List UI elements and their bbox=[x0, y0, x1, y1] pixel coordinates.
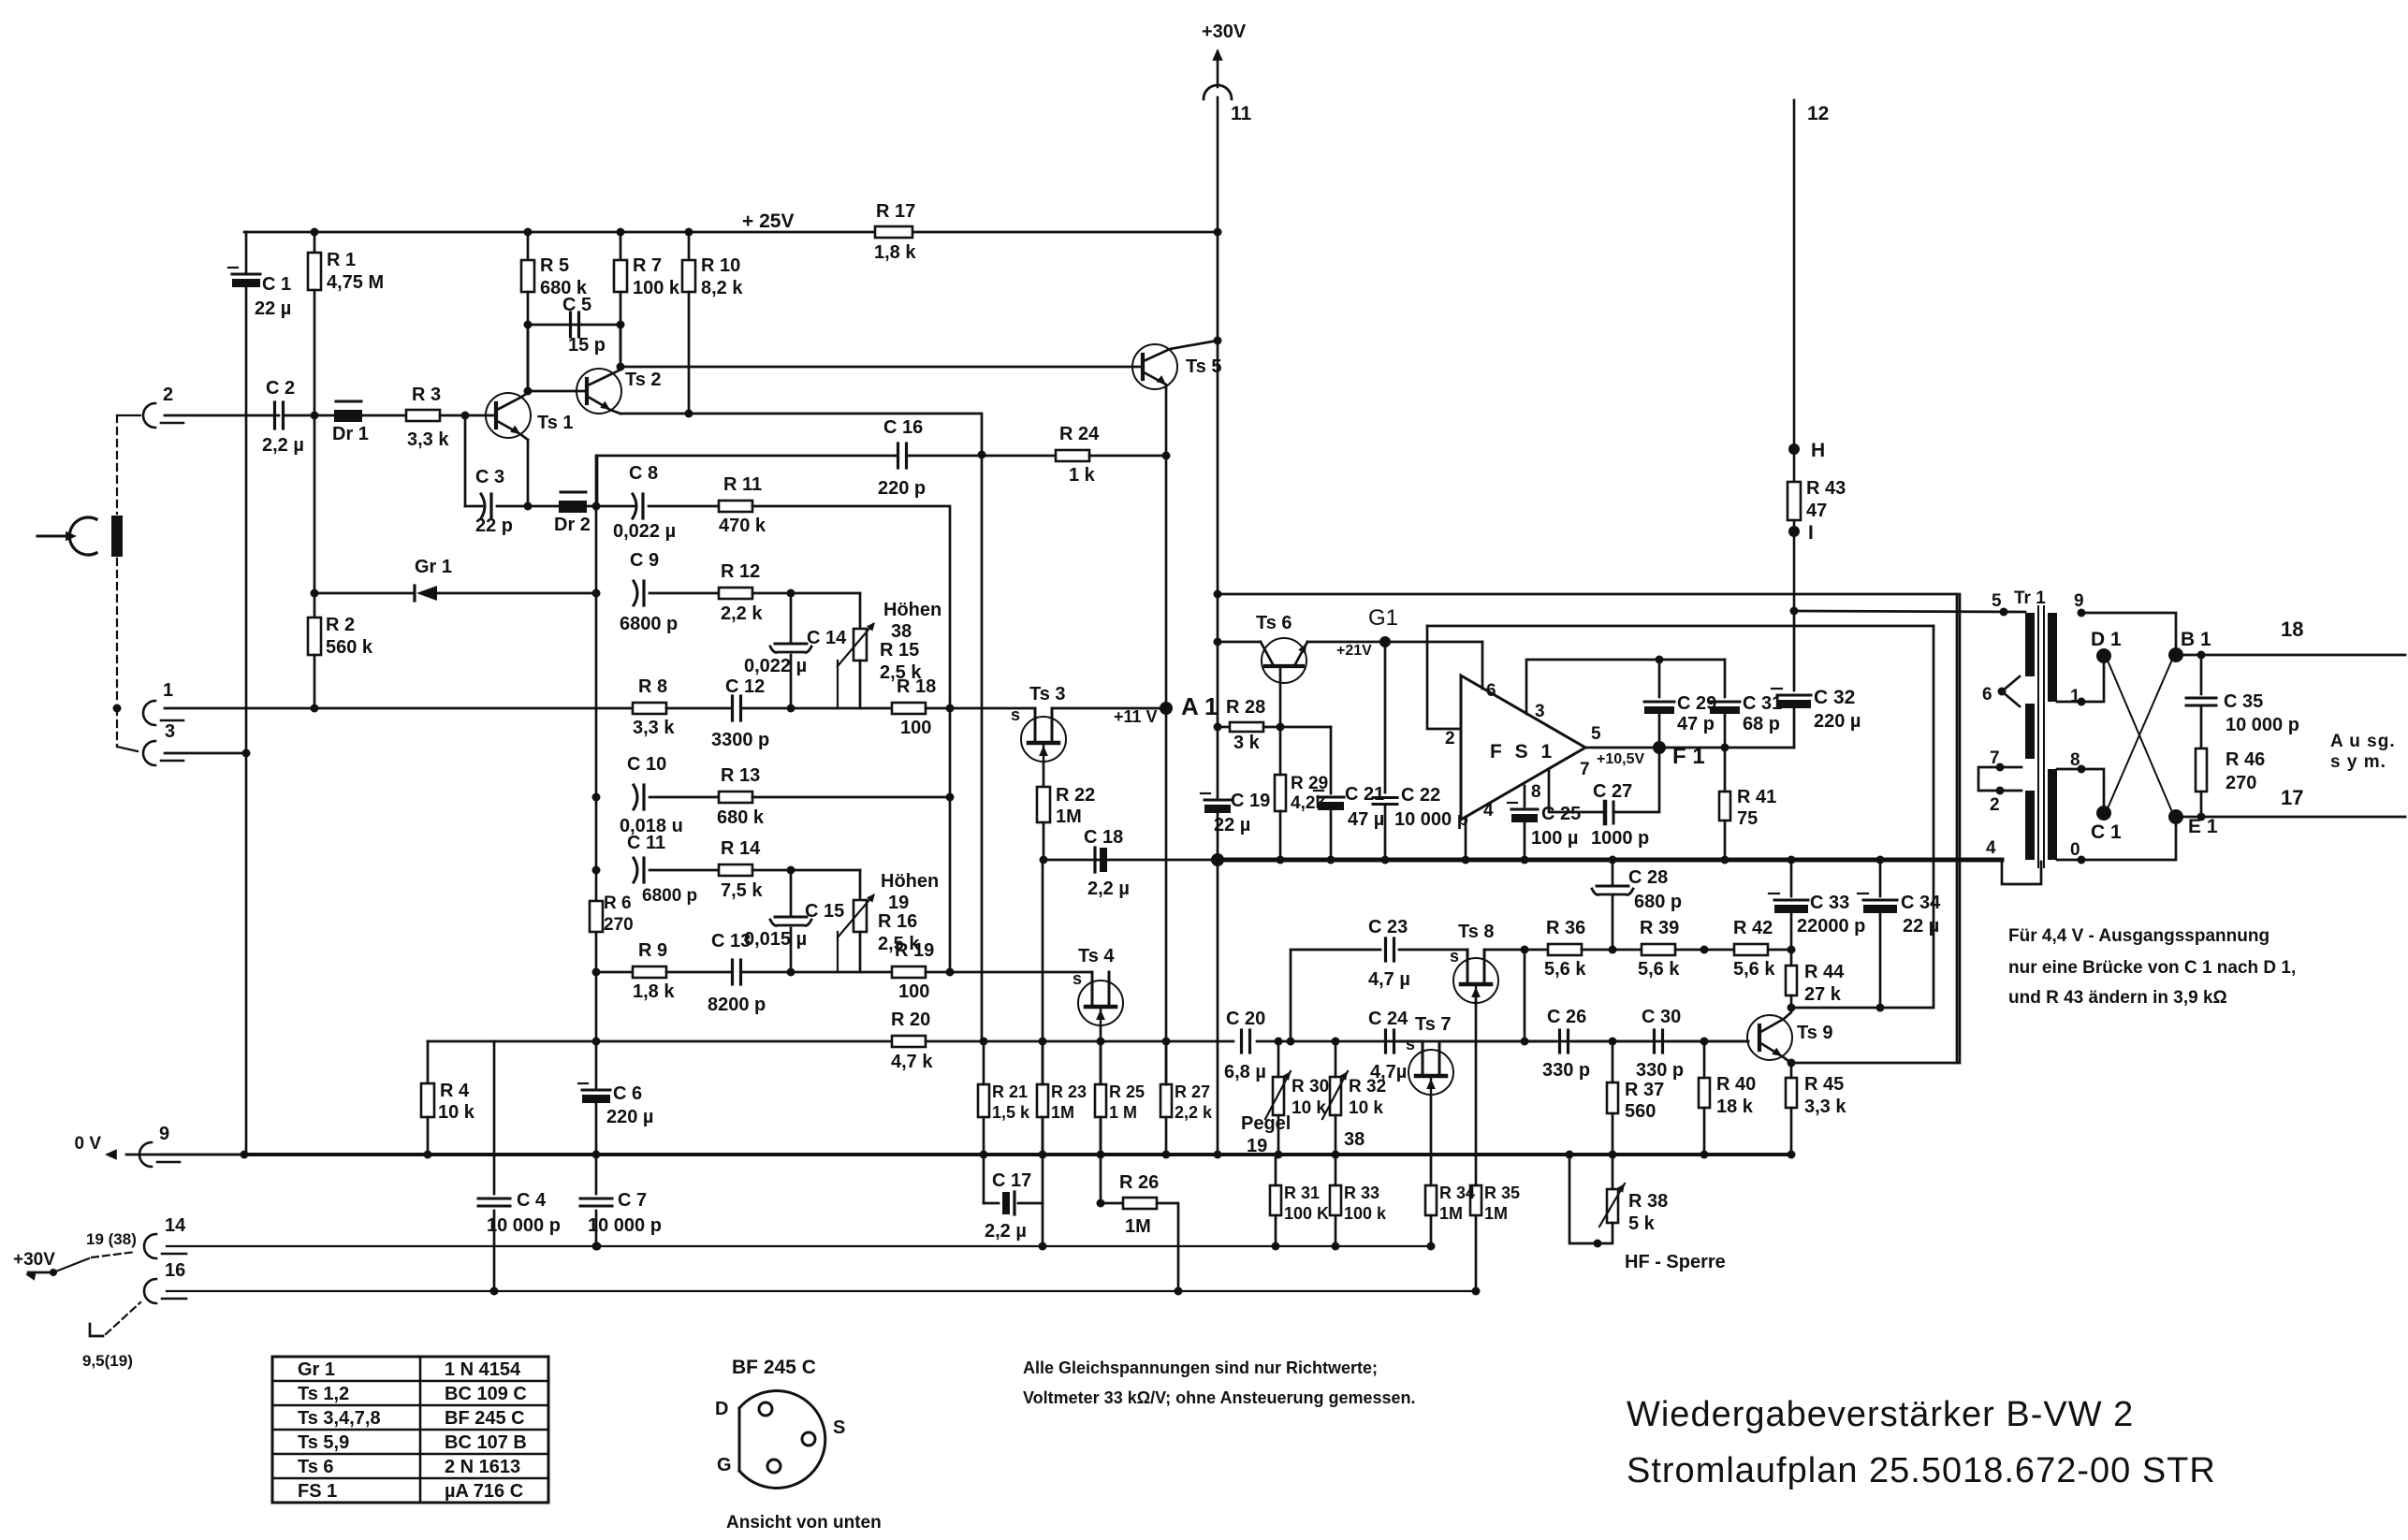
svg-text:Höhen: Höhen bbox=[881, 871, 939, 892]
svg-text:S: S bbox=[833, 1417, 845, 1438]
svg-text:C 5: C 5 bbox=[562, 295, 591, 315]
svg-text:R 20: R 20 bbox=[891, 1010, 930, 1030]
svg-text:Ts 1: Ts 1 bbox=[537, 413, 574, 433]
svg-text:R 16: R 16 bbox=[878, 911, 917, 932]
svg-text:6,8 µ: 6,8 µ bbox=[1224, 1062, 1266, 1082]
svg-text:C 25: C 25 bbox=[1541, 804, 1581, 824]
svg-text:C 22: C 22 bbox=[1401, 785, 1440, 806]
svg-text:µA 716 C: µA 716 C bbox=[445, 1481, 523, 1502]
svg-text:18 k: 18 k bbox=[1716, 1097, 1754, 1117]
svg-text:1M: 1M bbox=[1125, 1216, 1151, 1237]
svg-text:27 k: 27 k bbox=[1804, 984, 1842, 1005]
svg-text:Wiedergabeverstärker B-VW 2: Wiedergabeverstärker B-VW 2 bbox=[1627, 1395, 2134, 1434]
svg-text:R 2: R 2 bbox=[326, 615, 355, 635]
svg-text:47 µ: 47 µ bbox=[1348, 809, 1384, 830]
svg-text:8200 p: 8200 p bbox=[708, 995, 766, 1015]
svg-text:Ts 9: Ts 9 bbox=[1797, 1023, 1833, 1043]
svg-text:0,022 µ: 0,022 µ bbox=[613, 521, 676, 542]
svg-text:3: 3 bbox=[165, 721, 175, 742]
svg-text:22 µ: 22 µ bbox=[1903, 916, 1939, 937]
svg-text:+30V: +30V bbox=[1202, 22, 1247, 42]
svg-text:R 1: R 1 bbox=[327, 250, 356, 270]
svg-text:1000 p: 1000 p bbox=[1591, 828, 1649, 849]
svg-text:75: 75 bbox=[1737, 808, 1758, 829]
svg-text:100 k: 100 k bbox=[633, 278, 680, 298]
svg-text:C 13: C 13 bbox=[711, 931, 751, 952]
svg-text:R 41: R 41 bbox=[1737, 787, 1776, 807]
svg-text:A 1: A 1 bbox=[1181, 692, 1219, 720]
svg-text:330 p: 330 p bbox=[1542, 1060, 1590, 1081]
svg-text:R 13: R 13 bbox=[721, 765, 760, 786]
svg-text:100 µ: 100 µ bbox=[1531, 828, 1578, 849]
svg-text:470 k: 470 k bbox=[719, 516, 766, 536]
svg-text:C 20: C 20 bbox=[1226, 1009, 1265, 1029]
svg-text:2: 2 bbox=[1445, 729, 1455, 748]
svg-text:5 k: 5 k bbox=[1628, 1213, 1656, 1234]
svg-text:R 39: R 39 bbox=[1640, 918, 1679, 938]
svg-text:C 18: C 18 bbox=[1084, 827, 1123, 848]
svg-text:R 19: R 19 bbox=[895, 940, 934, 961]
svg-text:C 11: C 11 bbox=[627, 833, 665, 853]
svg-text:3 k: 3 k bbox=[1233, 733, 1261, 753]
svg-text:Pegel: Pegel bbox=[1241, 1113, 1291, 1134]
svg-text:10 k: 10 k bbox=[438, 1102, 475, 1123]
svg-text:5: 5 bbox=[1992, 591, 2002, 611]
svg-text:38: 38 bbox=[891, 621, 912, 642]
svg-text:2,2 µ: 2,2 µ bbox=[262, 435, 304, 456]
svg-text:4: 4 bbox=[1483, 801, 1494, 821]
svg-text:C 14: C 14 bbox=[807, 628, 847, 648]
svg-text:Gr 1: Gr 1 bbox=[298, 1359, 335, 1380]
svg-text:2,2 k: 2,2 k bbox=[1175, 1103, 1213, 1122]
svg-text:s: s bbox=[1450, 947, 1459, 966]
svg-text:R 36: R 36 bbox=[1546, 918, 1585, 938]
svg-text:18: 18 bbox=[2281, 617, 2303, 641]
svg-text:I: I bbox=[1808, 522, 1814, 544]
svg-text:und R 43 ändern in 3,9 kΩ: und R 43 ändern in 3,9 kΩ bbox=[2008, 988, 2227, 1008]
svg-text:R 43: R 43 bbox=[1806, 478, 1846, 499]
svg-text:C 32: C 32 bbox=[1814, 687, 1855, 708]
svg-text:R 25: R 25 bbox=[1109, 1082, 1145, 1101]
svg-text:1M: 1M bbox=[1439, 1204, 1463, 1223]
svg-text:R 24: R 24 bbox=[1059, 424, 1100, 444]
svg-text:1 k: 1 k bbox=[1069, 465, 1096, 486]
svg-text:R 31: R 31 bbox=[1284, 1184, 1320, 1202]
svg-text:Für 4,4 V - Ausgangsspannung: Für 4,4 V - Ausgangsspannung bbox=[2008, 926, 2269, 946]
svg-text:1,5 k: 1,5 k bbox=[992, 1103, 1030, 1122]
svg-text:22 µ: 22 µ bbox=[1214, 815, 1250, 835]
svg-text:C 7: C 7 bbox=[618, 1190, 647, 1211]
svg-text:R 23: R 23 bbox=[1051, 1082, 1087, 1101]
svg-text:4,75 M: 4,75 M bbox=[327, 272, 384, 293]
svg-text:R 22: R 22 bbox=[1056, 785, 1095, 806]
svg-text:R 27: R 27 bbox=[1175, 1082, 1210, 1101]
svg-text:Ts 5,9: Ts 5,9 bbox=[298, 1432, 349, 1453]
svg-text:+11 V: +11 V bbox=[1114, 707, 1158, 726]
svg-text:F S 1: F S 1 bbox=[1490, 741, 1555, 763]
svg-text:8,2 k: 8,2 k bbox=[701, 278, 743, 298]
svg-text:8: 8 bbox=[1531, 782, 1541, 802]
svg-text:R 44: R 44 bbox=[1804, 962, 1845, 982]
svg-text:Gr 1: Gr 1 bbox=[415, 557, 452, 577]
svg-text:R 28: R 28 bbox=[1226, 697, 1265, 718]
svg-text:C 3: C 3 bbox=[475, 467, 504, 487]
svg-text:s y m.: s y m. bbox=[2330, 752, 2386, 772]
svg-text:C 23: C 23 bbox=[1368, 917, 1408, 937]
svg-text:47 p: 47 p bbox=[1677, 714, 1715, 734]
svg-text:R 10: R 10 bbox=[701, 255, 740, 276]
svg-text:680 k: 680 k bbox=[717, 807, 765, 828]
svg-text:Tr 1: Tr 1 bbox=[2014, 588, 2046, 608]
svg-text:+ 25V: + 25V bbox=[742, 211, 794, 232]
svg-text:560: 560 bbox=[1625, 1101, 1656, 1122]
svg-text:Ts 3,4,7,8: Ts 3,4,7,8 bbox=[298, 1408, 381, 1429]
svg-text:19: 19 bbox=[1247, 1136, 1267, 1156]
svg-text:5: 5 bbox=[1591, 724, 1601, 744]
svg-text:Stromlaufplan 25.5018.672-00 S: Stromlaufplan 25.5018.672-00 STR bbox=[1627, 1451, 2216, 1490]
svg-text:4,7 k: 4,7 k bbox=[891, 1052, 933, 1072]
svg-text:Dr 1: Dr 1 bbox=[332, 424, 369, 444]
svg-text:R 26: R 26 bbox=[1119, 1172, 1159, 1193]
svg-text:R 17: R 17 bbox=[876, 201, 915, 222]
svg-text:Alle Gleichspannungen sind nur: Alle Gleichspannungen sind nur Richtwert… bbox=[1023, 1358, 1378, 1377]
svg-text:1 N 4154: 1 N 4154 bbox=[445, 1359, 521, 1380]
svg-text:R 34: R 34 bbox=[1439, 1184, 1475, 1202]
svg-text:C 10: C 10 bbox=[627, 754, 666, 775]
svg-text:C 27: C 27 bbox=[1593, 781, 1632, 802]
svg-text:+30V: +30V bbox=[13, 1250, 55, 1270]
svg-text:HF - Sperre: HF - Sperre bbox=[1625, 1252, 1726, 1272]
svg-text:1M: 1M bbox=[1051, 1103, 1074, 1122]
svg-text:22 µ: 22 µ bbox=[255, 298, 291, 319]
svg-text:3: 3 bbox=[1535, 702, 1545, 721]
svg-text:Ts 8: Ts 8 bbox=[1458, 922, 1495, 942]
svg-text:R 45: R 45 bbox=[1804, 1074, 1844, 1095]
svg-text:100 k: 100 k bbox=[1344, 1204, 1387, 1223]
svg-text:R 46: R 46 bbox=[2226, 749, 2265, 770]
svg-text:3,3 k: 3,3 k bbox=[1804, 1097, 1846, 1117]
svg-text:R 40: R 40 bbox=[1716, 1074, 1756, 1095]
svg-text:R 33: R 33 bbox=[1344, 1184, 1379, 1202]
svg-text:+21V: +21V bbox=[1336, 643, 1372, 659]
svg-text:R 5: R 5 bbox=[540, 255, 569, 276]
svg-text:14: 14 bbox=[165, 1215, 186, 1236]
svg-text:C 30: C 30 bbox=[1642, 1007, 1681, 1027]
svg-text:Höhen: Höhen bbox=[883, 600, 941, 620]
svg-text:nur eine Brücke von C 1 nach D: nur eine Brücke von C 1 nach D 1, bbox=[2008, 958, 2296, 978]
svg-text:3,3 k: 3,3 k bbox=[407, 429, 449, 450]
svg-text:R 3: R 3 bbox=[412, 385, 441, 405]
svg-text:Ansicht von unten: Ansicht von unten bbox=[726, 1513, 882, 1533]
svg-text:F 1: F 1 bbox=[1672, 744, 1705, 769]
svg-text:C 34: C 34 bbox=[1901, 893, 1941, 913]
svg-text:R 12: R 12 bbox=[721, 561, 760, 582]
svg-text:16: 16 bbox=[165, 1260, 185, 1281]
svg-text:C 9: C 9 bbox=[630, 550, 659, 571]
svg-text:7,5 k: 7,5 k bbox=[721, 880, 763, 901]
svg-text:C 6: C 6 bbox=[613, 1083, 642, 1104]
svg-text:1,8 k: 1,8 k bbox=[633, 981, 675, 1002]
svg-text:2,2 µ: 2,2 µ bbox=[1087, 879, 1130, 899]
svg-text:0 V: 0 V bbox=[74, 1134, 101, 1154]
svg-text:680 p: 680 p bbox=[1634, 892, 1682, 912]
svg-text:s: s bbox=[1073, 969, 1082, 988]
svg-text:R 9: R 9 bbox=[638, 940, 667, 961]
svg-text:C 1: C 1 bbox=[262, 274, 291, 295]
svg-text:C 19: C 19 bbox=[1231, 791, 1270, 811]
svg-text:C 8: C 8 bbox=[629, 463, 658, 484]
svg-text:R 35: R 35 bbox=[1484, 1184, 1520, 1202]
svg-text:1M: 1M bbox=[1484, 1204, 1508, 1223]
svg-text:1: 1 bbox=[163, 680, 173, 701]
svg-text:R 32: R 32 bbox=[1349, 1077, 1386, 1097]
svg-text:10 k: 10 k bbox=[1349, 1098, 1383, 1118]
svg-text:10 000 p: 10 000 p bbox=[2226, 715, 2299, 735]
svg-text:BF 245 C: BF 245 C bbox=[732, 1357, 816, 1378]
svg-text:22 p: 22 p bbox=[475, 516, 513, 536]
svg-text:D 1: D 1 bbox=[2091, 629, 2122, 650]
svg-text:R 21: R 21 bbox=[992, 1082, 1028, 1101]
svg-text:R 6: R 6 bbox=[604, 893, 632, 913]
svg-text:Ts 2: Ts 2 bbox=[625, 370, 662, 390]
svg-text:4,7 µ: 4,7 µ bbox=[1368, 969, 1410, 990]
svg-text:1 M: 1 M bbox=[1109, 1103, 1137, 1122]
svg-text:R 37: R 37 bbox=[1625, 1080, 1664, 1100]
svg-text:9: 9 bbox=[2074, 591, 2084, 611]
svg-text:Ts 6: Ts 6 bbox=[298, 1457, 334, 1477]
svg-text:12: 12 bbox=[1807, 103, 1829, 124]
svg-text:Ts 7: Ts 7 bbox=[1415, 1014, 1452, 1035]
svg-text:19: 19 bbox=[888, 893, 909, 913]
svg-text:Ts 6: Ts 6 bbox=[1256, 613, 1292, 633]
svg-text:2,2 k: 2,2 k bbox=[721, 603, 763, 624]
svg-text:R 15: R 15 bbox=[880, 640, 919, 661]
svg-text:2: 2 bbox=[1990, 795, 2000, 815]
svg-text:s: s bbox=[1406, 1035, 1415, 1053]
svg-text:19 (38): 19 (38) bbox=[86, 1230, 137, 1248]
svg-text:270: 270 bbox=[2226, 773, 2256, 793]
svg-text:6: 6 bbox=[1982, 685, 1992, 705]
svg-text:9,5(19): 9,5(19) bbox=[82, 1352, 133, 1370]
svg-text:220 µ: 220 µ bbox=[606, 1107, 653, 1127]
svg-text:G: G bbox=[717, 1455, 732, 1475]
svg-text:1,8 k: 1,8 k bbox=[874, 242, 916, 263]
svg-text:R 42: R 42 bbox=[1733, 918, 1773, 938]
svg-text:D: D bbox=[715, 1399, 728, 1419]
svg-text:H: H bbox=[1811, 440, 1825, 461]
svg-text:R 7: R 7 bbox=[633, 255, 662, 276]
svg-text:C 26: C 26 bbox=[1547, 1007, 1586, 1027]
svg-text:R 38: R 38 bbox=[1628, 1191, 1668, 1212]
svg-text:6800 p: 6800 p bbox=[642, 886, 697, 906]
svg-text:C 4: C 4 bbox=[517, 1190, 547, 1211]
svg-text:17: 17 bbox=[2281, 786, 2303, 809]
svg-text:100: 100 bbox=[900, 718, 931, 738]
svg-text:C 24: C 24 bbox=[1368, 1009, 1408, 1029]
svg-text:C 2: C 2 bbox=[266, 378, 295, 399]
svg-text:+10,5V: +10,5V bbox=[1597, 751, 1644, 767]
svg-text:2,2 µ: 2,2 µ bbox=[985, 1221, 1027, 1242]
svg-text:3,3 k: 3,3 k bbox=[633, 718, 675, 738]
svg-text:100: 100 bbox=[898, 981, 929, 1002]
svg-text:Dr 2: Dr 2 bbox=[554, 515, 591, 535]
svg-text:C 17: C 17 bbox=[992, 1170, 1031, 1191]
svg-text:38: 38 bbox=[1344, 1129, 1365, 1150]
svg-text:0,022 µ: 0,022 µ bbox=[744, 656, 807, 676]
svg-text:3300 p: 3300 p bbox=[711, 730, 769, 750]
svg-text:10 000 p: 10 000 p bbox=[1394, 809, 1468, 830]
svg-text:2: 2 bbox=[163, 385, 173, 405]
svg-text:R 18: R 18 bbox=[897, 676, 936, 697]
svg-text:G1: G1 bbox=[1368, 605, 1398, 631]
svg-text:22000 p: 22000 p bbox=[1797, 916, 1865, 937]
svg-text:C 35: C 35 bbox=[2224, 691, 2263, 712]
svg-text:s: s bbox=[1011, 705, 1020, 724]
svg-text:9: 9 bbox=[159, 1124, 169, 1144]
svg-text:FS 1: FS 1 bbox=[298, 1481, 337, 1502]
svg-text:6: 6 bbox=[1486, 681, 1496, 701]
svg-text:C 33: C 33 bbox=[1810, 893, 1849, 913]
svg-text:11: 11 bbox=[1231, 103, 1252, 124]
svg-text:15 p: 15 p bbox=[568, 335, 606, 356]
svg-text:1M: 1M bbox=[1056, 806, 1082, 827]
svg-text:5,6 k: 5,6 k bbox=[1544, 959, 1586, 980]
svg-text:47: 47 bbox=[1806, 501, 1827, 521]
svg-text:R 30: R 30 bbox=[1292, 1077, 1329, 1097]
svg-text:220 p: 220 p bbox=[878, 478, 926, 499]
svg-text:A u sg.: A u sg. bbox=[2330, 732, 2396, 751]
svg-text:2 N 1613: 2 N 1613 bbox=[445, 1457, 520, 1477]
svg-text:68 p: 68 p bbox=[1743, 714, 1780, 734]
svg-text:Ts 4: Ts 4 bbox=[1078, 946, 1115, 966]
svg-text:C 16: C 16 bbox=[883, 417, 923, 438]
svg-text:5,6 k: 5,6 k bbox=[1733, 959, 1775, 980]
svg-text:560 k: 560 k bbox=[326, 637, 373, 658]
svg-text:270: 270 bbox=[604, 915, 634, 935]
svg-text:C 21: C 21 bbox=[1345, 784, 1384, 805]
svg-text:Voltmeter 33 kΩ/V; ohne Ansteu: Voltmeter 33 kΩ/V; ohne Ansteuerung geme… bbox=[1023, 1388, 1416, 1407]
svg-text:10 000 p: 10 000 p bbox=[487, 1215, 561, 1236]
svg-text:C 28: C 28 bbox=[1628, 867, 1668, 888]
svg-text:4: 4 bbox=[1986, 838, 1996, 858]
svg-text:6800 p: 6800 p bbox=[620, 614, 678, 634]
svg-text:R 4: R 4 bbox=[440, 1081, 470, 1101]
svg-text:B 1: B 1 bbox=[2181, 629, 2211, 650]
svg-text:BC 107 B: BC 107 B bbox=[445, 1432, 527, 1453]
svg-text:100 K: 100 K bbox=[1284, 1204, 1329, 1223]
svg-text:10 000 p: 10 000 p bbox=[588, 1215, 662, 1236]
svg-text:C 15: C 15 bbox=[805, 901, 844, 922]
svg-text:5,6 k: 5,6 k bbox=[1638, 959, 1680, 980]
svg-text:330 p: 330 p bbox=[1636, 1060, 1684, 1081]
svg-text:220 µ: 220 µ bbox=[1814, 711, 1861, 732]
svg-text:R 14: R 14 bbox=[721, 838, 761, 859]
svg-text:7: 7 bbox=[1580, 760, 1590, 779]
svg-text:BC 109 C: BC 109 C bbox=[445, 1384, 527, 1404]
svg-text:Ts 3: Ts 3 bbox=[1029, 684, 1066, 705]
svg-text:10 k: 10 k bbox=[1292, 1098, 1326, 1118]
svg-text:Ts 1,2: Ts 1,2 bbox=[298, 1384, 349, 1404]
svg-text:R 11: R 11 bbox=[723, 474, 762, 495]
svg-text:C 12: C 12 bbox=[725, 676, 765, 697]
svg-text:C 1: C 1 bbox=[2091, 821, 2122, 843]
svg-text:BF 245 C: BF 245 C bbox=[445, 1408, 525, 1429]
svg-text:R 8: R 8 bbox=[638, 676, 667, 697]
svg-text:0,015 µ: 0,015 µ bbox=[744, 929, 807, 950]
